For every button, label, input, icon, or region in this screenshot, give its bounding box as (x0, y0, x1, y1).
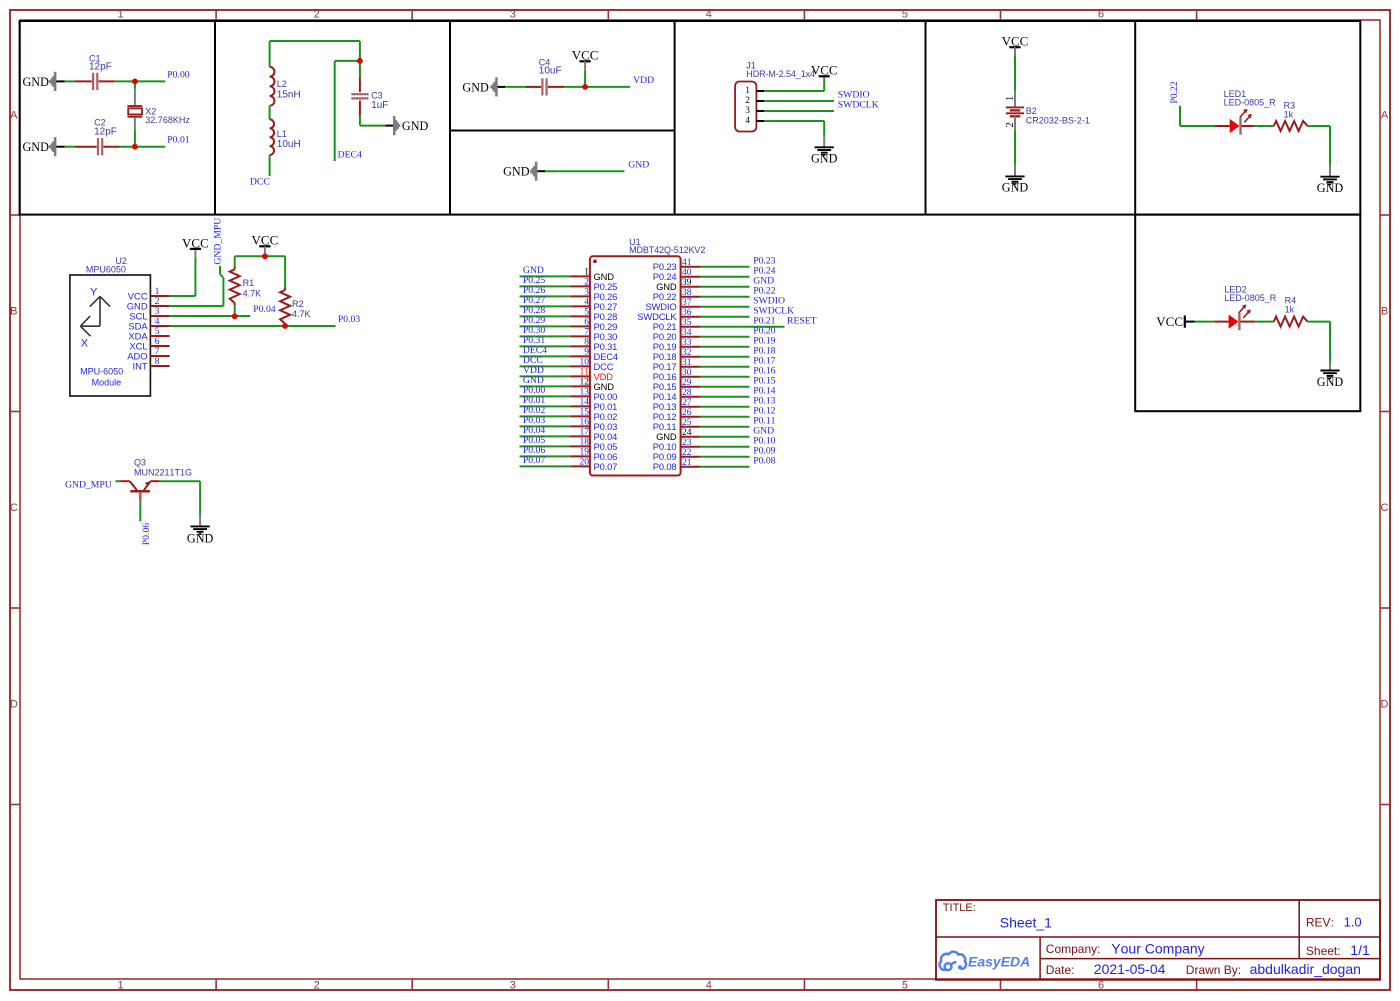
svg-text:Sheet_1: Sheet_1 (1000, 915, 1052, 931)
svg-text:GND_MPU: GND_MPU (212, 218, 223, 265)
svg-text:X: X (81, 338, 89, 350)
svg-text:Y: Y (90, 287, 98, 299)
svg-text:P0.08: P0.08 (753, 455, 775, 466)
svg-text:MPU6050: MPU6050 (86, 264, 126, 274)
svg-text:1: 1 (117, 9, 123, 21)
svg-text:6: 6 (1098, 980, 1104, 992)
svg-text:HDR-M-2.54_1x4: HDR-M-2.54_1x4 (746, 69, 815, 79)
svg-text:40: 40 (682, 268, 692, 278)
svg-text:28: 28 (682, 388, 692, 398)
svg-text:GND: GND (1317, 375, 1344, 389)
svg-text:29: 29 (682, 378, 692, 388)
svg-text:31: 31 (682, 358, 692, 368)
svg-text:8: 8 (584, 338, 589, 348)
svg-text:R1: R1 (243, 278, 255, 288)
svg-text:INT: INT (132, 360, 147, 371)
svg-text:9: 9 (584, 348, 589, 358)
svg-text:32.768KHz: 32.768KHz (145, 115, 190, 125)
svg-text:GND: GND (187, 532, 214, 546)
svg-text:4: 4 (706, 9, 712, 21)
svg-text:Q3: Q3 (134, 458, 146, 468)
svg-text:P0.06: P0.06 (141, 523, 152, 545)
svg-text:B2: B2 (1026, 106, 1037, 116)
svg-text:GND: GND (628, 159, 649, 170)
svg-text:Your Company: Your Company (1111, 941, 1204, 957)
svg-text:10uF: 10uF (539, 66, 562, 77)
svg-text:GND: GND (462, 80, 489, 94)
svg-text:4.7K: 4.7K (292, 309, 311, 319)
svg-text:12: 12 (580, 378, 590, 388)
svg-text:19: 19 (580, 448, 590, 458)
svg-text:VCC: VCC (182, 235, 209, 250)
svg-text:P0.08: P0.08 (653, 461, 677, 472)
svg-text:abdulkadir_dogan: abdulkadir_dogan (1250, 961, 1361, 977)
svg-text:7: 7 (584, 328, 589, 338)
svg-text:12pF: 12pF (89, 62, 112, 73)
svg-text:SWDCLK: SWDCLK (838, 100, 879, 111)
svg-text:1k: 1k (1284, 109, 1294, 119)
svg-text:GND: GND (811, 152, 838, 166)
svg-text:13: 13 (580, 388, 590, 398)
svg-text:VCC: VCC (572, 48, 599, 63)
svg-text:1uF: 1uF (371, 100, 388, 111)
svg-text:REV:: REV: (1306, 915, 1334, 929)
svg-text:36: 36 (682, 308, 692, 318)
svg-text:10uH: 10uH (277, 139, 301, 150)
svg-text:1: 1 (584, 268, 589, 278)
svg-text:4: 4 (745, 115, 750, 125)
svg-text:C: C (1381, 502, 1389, 514)
svg-text:21: 21 (682, 458, 692, 468)
svg-text:R2: R2 (292, 299, 304, 309)
svg-text:2: 2 (584, 278, 589, 288)
svg-text:38: 38 (682, 288, 692, 298)
svg-text:MUN2211T1G: MUN2211T1G (134, 468, 192, 478)
svg-text:CR2032-BS-2-1: CR2032-BS-2-1 (1026, 115, 1090, 125)
svg-text:VCC: VCC (1156, 314, 1183, 329)
svg-text:6: 6 (584, 318, 589, 328)
svg-text:P0.04: P0.04 (253, 304, 275, 315)
svg-text:1k: 1k (1285, 305, 1295, 315)
svg-text:P0.07: P0.07 (594, 461, 618, 472)
svg-text:32: 32 (682, 348, 692, 358)
svg-text:15: 15 (580, 408, 590, 418)
svg-text:MPU-6050: MPU-6050 (80, 367, 123, 377)
svg-text:P0.00: P0.00 (167, 70, 189, 81)
svg-text:Drawn By:: Drawn By: (1186, 963, 1241, 977)
svg-text:LED-0805_R: LED-0805_R (1224, 98, 1277, 108)
svg-text:P0.22: P0.22 (1169, 81, 1180, 103)
svg-text:MDBT42Q-512KV2: MDBT42Q-512KV2 (629, 245, 705, 255)
svg-text:P0.01: P0.01 (167, 135, 189, 146)
svg-text:Sheet:: Sheet: (1306, 944, 1341, 958)
svg-text:Date:: Date: (1046, 963, 1075, 977)
svg-text:8: 8 (155, 356, 160, 367)
svg-text:23: 23 (682, 438, 692, 448)
svg-text:4.7K: 4.7K (243, 288, 262, 298)
svg-text:GND: GND (402, 119, 429, 133)
svg-text:B: B (10, 305, 17, 317)
svg-text:27: 27 (682, 398, 692, 408)
svg-text:VCC: VCC (252, 233, 279, 248)
svg-text:GND: GND (1002, 181, 1029, 195)
svg-text:P0.07: P0.07 (523, 455, 545, 466)
svg-text:3: 3 (510, 9, 516, 21)
svg-text:2: 2 (314, 980, 320, 992)
svg-text:41: 41 (682, 258, 692, 268)
svg-text:5: 5 (902, 980, 908, 992)
svg-text:2: 2 (745, 95, 750, 105)
svg-text:B: B (1381, 305, 1388, 317)
svg-text:L2: L2 (277, 79, 287, 89)
svg-text:EasyEDA: EasyEDA (968, 954, 1030, 970)
svg-text:12pF: 12pF (94, 127, 117, 138)
svg-text:37: 37 (682, 298, 692, 308)
svg-text:L1: L1 (277, 129, 287, 139)
svg-text:D: D (1381, 698, 1389, 710)
svg-text:2021-05-04: 2021-05-04 (1094, 961, 1166, 977)
svg-text:3: 3 (510, 980, 516, 992)
svg-text:GND_MPU: GND_MPU (65, 480, 112, 491)
svg-text:1: 1 (745, 85, 750, 95)
svg-text:33: 33 (682, 338, 692, 348)
svg-text:10: 10 (580, 358, 590, 368)
svg-text:11: 11 (580, 368, 590, 378)
svg-text:3: 3 (745, 105, 750, 115)
svg-text:4: 4 (584, 298, 589, 308)
svg-text:39: 39 (682, 278, 692, 288)
svg-text:Module: Module (92, 377, 122, 387)
svg-text:RESET: RESET (787, 315, 817, 326)
svg-text:3: 3 (584, 288, 589, 298)
svg-text:C: C (10, 502, 18, 514)
svg-text:LED-0805_R: LED-0805_R (1224, 293, 1277, 303)
svg-text:26: 26 (682, 408, 692, 418)
svg-text:DEC4: DEC4 (338, 150, 362, 161)
svg-text:GND: GND (503, 165, 530, 179)
svg-text:14: 14 (580, 398, 590, 408)
svg-text:2: 2 (314, 9, 320, 21)
svg-text:TITLE:: TITLE: (943, 902, 976, 914)
svg-text:GND: GND (1317, 181, 1344, 195)
svg-text:18: 18 (580, 438, 590, 448)
svg-text:16: 16 (580, 418, 590, 428)
svg-text:Company:: Company: (1046, 942, 1101, 956)
svg-text:A: A (1381, 110, 1389, 122)
svg-text:5: 5 (902, 9, 908, 21)
svg-text:P0.03: P0.03 (338, 314, 360, 325)
svg-text:DCC: DCC (250, 176, 270, 187)
svg-text:4: 4 (706, 980, 712, 992)
svg-text:35: 35 (682, 318, 692, 328)
svg-text:25: 25 (682, 418, 692, 428)
svg-text:A: A (10, 110, 18, 122)
svg-text:20: 20 (580, 458, 590, 468)
svg-text:34: 34 (682, 328, 692, 338)
svg-text:30: 30 (682, 368, 692, 378)
svg-text:1: 1 (1005, 96, 1016, 101)
svg-text:D: D (10, 698, 18, 710)
svg-text:6: 6 (1098, 9, 1104, 21)
svg-text:22: 22 (682, 448, 692, 458)
svg-text:17: 17 (580, 428, 590, 438)
svg-text:1.0: 1.0 (1344, 915, 1362, 930)
svg-text:GND: GND (22, 75, 49, 89)
svg-text:VDD: VDD (633, 75, 654, 86)
svg-text:GND: GND (22, 140, 49, 154)
svg-text:24: 24 (682, 428, 692, 438)
svg-text:1: 1 (117, 980, 123, 992)
svg-text:15nH: 15nH (277, 90, 301, 101)
svg-text:1/1: 1/1 (1350, 942, 1370, 958)
svg-text:5: 5 (584, 308, 589, 318)
svg-text:VCC: VCC (811, 63, 838, 78)
